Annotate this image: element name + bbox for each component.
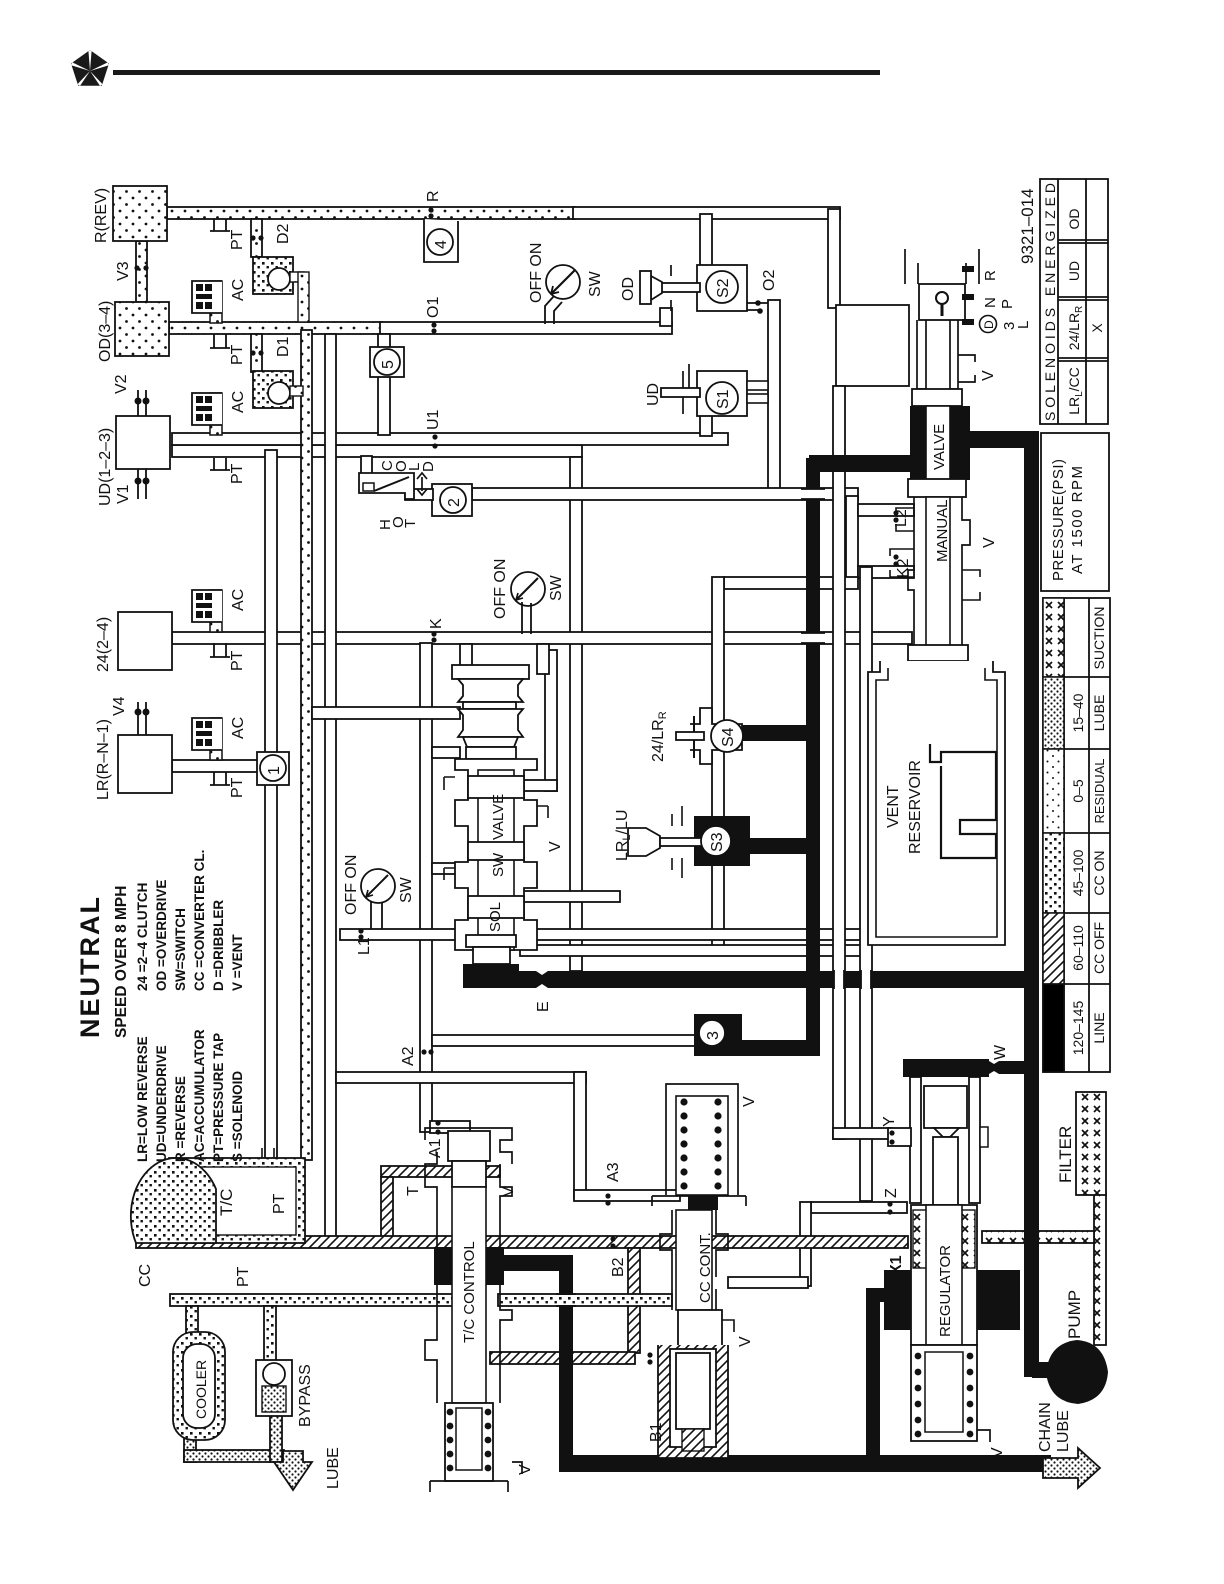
thick line: X1 vertical [866,1288,880,1472]
thick line: E line horizontal [464,971,1039,988]
svg-text:2: 2 [446,498,463,507]
thick line: main vertical pump to manual valve [1024,432,1039,1377]
wire A3 feed [336,1072,586,1083]
channels [134,207,1106,1462]
svg-text:V: V [500,1186,517,1197]
svg-text:R(REV): R(REV) [93,188,110,243]
wire H4 crossing thick [801,489,825,499]
svg-text:45–100: 45–100 [1070,849,1086,896]
pressure tap PT3 [210,458,230,470]
table: pressure legend [1043,598,1110,1072]
svg-text:CC CONT.: CC CONT. [697,1232,714,1303]
table: pressure psi at 1500 rpm [1041,433,1109,591]
wire speckle crossing B2 thick [556,1294,576,1306]
svg-text:LUBE: LUBE [325,1447,342,1489]
svg-text:OFF ON: OFF ON [343,855,360,915]
svg-text:V: V [989,1447,1006,1458]
wire SOL valve top feed right [460,644,472,674]
svg-text:CC ON: CC ON [1091,850,1107,895]
wire S2 drop from R line [700,214,712,270]
svg-text:LUBE: LUBE [1055,1410,1072,1452]
wire K crossing thick [801,633,825,643]
svg-text:5: 5 [380,360,397,369]
svg-text:VALVE: VALVE [931,424,948,470]
vent reservoir [868,661,1005,945]
wire SOL valve left stubs [432,747,460,758]
svg-text:SW: SW [548,574,565,601]
thick line: S4 branch [742,725,814,741]
svg-text:PT: PT [271,1193,288,1214]
svg-text:S3: S3 [709,832,726,852]
thick line: B2 from T/C control [498,1255,573,1271]
wire circled5 to U1 [378,373,390,435]
svg-text:V: V [980,370,997,381]
wire L2 stub [858,504,914,516]
svg-text:120–145: 120–145 [1070,1001,1086,1056]
svg-text:T/C: T/C [217,1189,236,1216]
accumulator B1 [658,1345,728,1458]
wire left long vertical lower [265,781,277,1160]
svg-text:RESERVOIR: RESERVOIR [907,760,924,854]
wire O1 to S2 stub [660,308,672,326]
svg-text:P: P [999,299,1016,309]
solenoid S3 assembly [628,806,750,878]
svg-text:O2: O2 [761,270,778,291]
svg-text:A1: A1 [427,1138,444,1158]
svg-text:Y: Y [881,1116,898,1127]
svg-text:BYPASS: BYPASS [297,1364,314,1427]
svg-text:REGULATOR: REGULATOR [937,1245,954,1337]
wire Vb crossing E line [861,970,871,989]
svg-text:SW=SWITCH: SW=SWITCH [173,908,188,991]
accumulator AC4 [192,718,222,760]
bypass valve [256,1360,292,1416]
svg-text:UD: UD [645,383,662,406]
svg-text:AC: AC [230,717,247,739]
PRNDL indicator [962,266,1032,333]
wire SOL valve top feed left [312,707,460,719]
svg-text:SOLENOIDS ENERGIZED: SOLENOIDS ENERGIZED [1042,183,1058,421]
svg-text:PT: PT [229,463,246,484]
pressure tap PT2 [210,334,230,348]
wire R line plain [573,207,840,219]
wire O1 line plain [380,322,672,334]
svg-text:VENT: VENT [885,785,902,828]
svg-text:UD=UNDERDRIVE: UD=UNDERDRIVE [154,1045,169,1162]
svg-text:V2: V2 [113,374,130,394]
wire right vertical to Z [860,567,872,1201]
cooler [173,1332,225,1440]
table: solenoids energized [1040,179,1108,424]
svg-text:OFF ON: OFF ON [528,243,545,303]
wire suction to regulator [982,1231,1094,1243]
svg-text:D: D [982,320,996,329]
wire circled2 to S1 line [472,488,858,500]
wire Va crossing E line [834,970,844,989]
solenoid S1 assembly [661,364,768,416]
svg-text:V =VENT: V =VENT [230,934,245,991]
svg-text:LR(R–N–1): LR(R–N–1) [95,719,112,800]
svg-text:Z: Z [883,1188,900,1198]
svg-text:0–5: 0–5 [1070,779,1086,803]
switch SW2 [511,572,545,634]
svg-text:PT: PT [229,777,246,798]
svg-text:VALVE: VALVE [490,794,507,840]
t/c control valve [425,1128,522,1492]
svg-text:SPEED OVER 8 MPH: SPEED OVER 8 MPH [113,886,130,1038]
wire hatch to B1 [490,1352,635,1364]
label COLD letters [379,460,437,472]
svg-text:D1: D1 [275,336,292,357]
svg-text:S2: S2 [715,278,732,298]
wire SW3 stem [371,901,382,933]
svg-text:CC =CONVERTER CL.: CC =CONVERTER CL. [192,850,207,991]
wire K line [172,632,912,644]
svg-text:OFF ON: OFF ON [492,559,509,619]
svg-text:PT: PT [229,344,246,365]
svg-text:PT: PT [229,650,246,671]
accumulator AC3 [192,590,222,632]
thick line: S3 branch [746,838,814,854]
wire speckle to cooler [186,1306,198,1334]
svg-text:PRESSURE(PSI): PRESSURE(PSI) [1050,459,1067,581]
svg-text:V: V [547,841,564,852]
svg-text:R =REVERSE: R =REVERSE [173,1076,188,1162]
svg-text:1: 1 [266,766,283,775]
svg-text:D: D [420,461,437,472]
swatch line [1043,984,1064,1072]
svg-text:X1: X1 [888,1255,905,1275]
svg-text:N: N [982,297,999,308]
valve circled 4 [424,219,458,262]
thick line: pump stub [1032,1362,1054,1378]
pump [1046,1340,1108,1404]
svg-text:SW: SW [587,270,604,297]
svg-text:B2: B2 [610,1257,627,1277]
wire SOL valve right loop [545,650,557,791]
thick line: left vertical to box3 [806,458,820,1056]
svg-text:AC: AC [230,279,247,301]
lube arrow [274,1451,312,1490]
svg-text:AC: AC [230,391,247,413]
thick line: W to main [985,1061,1026,1074]
header rule [113,70,880,75]
svg-text:15–40: 15–40 [1070,693,1086,732]
wire corner down to D-loop [828,209,840,308]
wire UD second channel D [172,445,582,457]
svg-text:T/C CONTROL: T/C CONTROL [461,1241,478,1343]
wire U1 corner up to S1 [700,414,712,436]
swatch suction [1043,598,1064,677]
thermal valve COLD/HOT [359,456,433,500]
label HOT letters [377,516,419,530]
svg-text:24 =2–4 CLUTCH: 24 =2–4 CLUTCH [135,883,150,991]
thick line: manual valve left run [809,455,919,472]
vent V2 stem [135,390,148,416]
svg-text:X: X [1089,323,1105,333]
svg-text:V: V [737,1336,754,1347]
wire hatch CC OFF main B2 [136,1236,908,1248]
swatch lube [1043,677,1064,749]
svg-text:D2: D2 [275,223,292,244]
valve circled 2 [432,484,472,516]
wire right vertical to Y [833,386,845,1139]
svg-text:V: V [517,1464,534,1475]
wire O2-S1 vertical [768,300,780,496]
svg-text:S4: S4 [720,727,737,747]
svg-text:V: V [741,1096,758,1107]
svg-text:PUMP: PUMP [1065,1290,1084,1339]
svg-text:PT: PT [235,1266,252,1287]
svg-text:9321–014: 9321–014 [1018,188,1037,264]
legend abbreviation list [135,850,245,1162]
svg-text:SW: SW [398,876,415,903]
svg-text:E: E [535,1001,552,1012]
wire box3 feed line [432,1035,698,1046]
thick line: box3 arm [739,1040,813,1056]
dribbler D1 [250,334,303,408]
wire speckle CC ON horizontal [170,1294,455,1306]
svg-text:CC: CC [137,1264,154,1287]
svg-text:LUBE: LUBE [1091,695,1107,732]
svg-text:R: R [982,270,999,281]
svg-text:MANUAL: MANUAL [934,499,951,562]
svg-text:T: T [402,519,419,528]
svg-text:CC OFF: CC OFF [1091,922,1107,974]
wire Y stub to regulator [833,1128,892,1139]
valve circled 1 [257,752,289,785]
valve circled 5 [370,347,404,377]
tables [1018,179,1110,1072]
wire hatch branch down [628,1248,640,1353]
svg-text:U1: U1 [425,409,442,430]
svg-text:R: R [425,190,442,202]
svg-text:AT 1500 RPM: AT 1500 RPM [1069,466,1086,574]
svg-text:RESIDUAL: RESIDUAL [1092,758,1107,823]
regulator assembly [884,1077,1020,1442]
label SOL SW VALVE [487,794,507,932]
wire SOL valve to VENT upper [520,945,870,956]
torque converter T/C [131,1148,305,1243]
vent V1 stem [135,469,148,499]
wire K2 stub [858,566,914,578]
wire V3 connector [136,241,147,302]
wire O1 drop vertical long [325,334,336,1238]
switch SW1 [545,265,580,324]
svg-text:L1: L1 [356,937,373,955]
header [71,50,880,86]
svg-text:V1: V1 [115,484,132,504]
svg-text:FILTER: FILTER [1056,1126,1075,1183]
clutch UD(1-2-3) [116,416,170,469]
svg-text:K2: K2 [895,558,912,578]
vent V4 stem [135,702,148,735]
svg-text:V: V [981,537,998,548]
wire circled5 top stub [378,334,390,353]
wire A1 corner [430,1121,470,1133]
cc cont valve [652,1084,746,1346]
svg-text:OD(3–4): OD(3–4) [97,301,114,362]
thick line: W bar [903,1059,989,1077]
wire stippled long vertical [301,330,312,1160]
svg-text:S1: S1 [715,389,732,409]
svg-text:OD: OD [620,277,637,301]
thickline [464,431,1054,1472]
svg-text:OD =OVERDRIVE: OD =OVERDRIVE [154,880,169,991]
svg-text:AC=ACCUMULATOR: AC=ACCUMULATOR [192,1029,207,1162]
svg-text:LR=LOW REVERSE: LR=LOW REVERSE [135,1036,150,1162]
manual valve assembly [890,249,980,661]
node D-port loop box [836,305,909,386]
svg-text:NEUTRAL: NEUTRAL [75,895,105,1038]
clutch 24(2-4) [118,612,172,670]
svg-text:PT=PRESSURE TAP: PT=PRESSURE TAP [211,1033,226,1162]
swatch residual [1043,749,1064,833]
svg-text:COOLER: COOLER [193,1360,209,1419]
svg-text:OD: OD [1066,209,1082,230]
svg-text:3: 3 [705,1031,722,1040]
wire lube dotted from cooler [184,1438,196,1462]
svg-text:60–110: 60–110 [1070,925,1086,971]
dribbler D2 [250,219,309,322]
wire LR box to circled1 [172,760,262,772]
svg-text:24(2–4): 24(2–4) [95,617,112,672]
wire L1 line to SOL valve [340,929,868,940]
svg-text:B1: B1 [648,1422,665,1442]
wire hatch T channel [381,1166,500,1177]
svg-text:S =SOLENOID: S =SOLENOID [230,1071,245,1162]
pressure tap PT4 [210,643,230,657]
svg-text:SUCTION: SUCTION [1091,607,1107,670]
wire U1 line [172,433,728,445]
svg-text:CHAIN: CHAIN [1037,1402,1054,1452]
swatch cc off [1043,913,1064,984]
wire U-continuation to vent [724,577,858,589]
solenoid S2 assembly [640,265,768,311]
svg-text:O1: O1 [425,297,442,318]
switch SW3 [361,869,395,903]
pressure tap PT5 LR [210,772,230,785]
wire O1 line stippled [169,322,382,334]
svg-text:UD(1–2–3): UD(1–2–3) [97,428,114,506]
wire L2 K2 riser [846,496,858,578]
accumulator AC1 [192,281,222,323]
svg-text:T: T [405,1186,422,1196]
svg-text:AC: AC [230,589,247,611]
clutch R(REV) [113,186,167,241]
svg-text:L: L [1015,321,1032,329]
thick line: X1 arm to regulator [866,1288,912,1302]
wire CC CONT right to Z riser [800,1202,811,1286]
svg-text:4: 4 [433,240,450,249]
svg-text:K: K [428,618,445,629]
svg-text:UD: UD [1066,261,1082,281]
filter [1076,1092,1106,1195]
clutch OD(3-4) [115,302,169,356]
wire D vertical long [570,457,582,971]
manual valve labels [931,424,951,562]
wire left long vertical upper [265,450,277,756]
pressure tap PT1 [210,219,230,231]
svg-text:V3: V3 [115,261,132,281]
svg-text:LRL/LU: LRL/LU [614,810,633,861]
clutch LR(R-N-1) [118,735,172,793]
wire K drop vertical A2 [420,643,432,1132]
svg-text:LINE: LINE [1091,1012,1107,1043]
thick line: bottom run [559,1455,1051,1472]
accumulator AC2 [192,393,222,435]
svg-text:A3: A3 [605,1162,622,1182]
thick line: B2 vertical down [559,1255,573,1472]
solenoid S4 assembly [676,708,743,764]
wire SOL valve to S3 [520,891,620,902]
chain lube arrow [1043,1448,1100,1488]
svg-text:V4: V4 [111,696,128,716]
wire speckle to bypass [264,1306,276,1364]
wire R line stippled [167,207,575,219]
svg-text:PT: PT [229,229,246,250]
svg-text:A2: A2 [400,1046,417,1066]
pentastar logo [71,50,109,86]
swatch cc on [1043,833,1064,913]
thick line: manual valve to main vertical [965,431,1039,448]
svg-text:W: W [992,1044,1009,1060]
svg-text:SW: SW [490,852,507,877]
wire suction filter down to pump [1094,1192,1106,1345]
valve circled 3 on black [694,1014,742,1056]
svg-text:D =DRIBBLER: D =DRIBBLER [211,900,226,991]
sol sw valve assembly [444,665,548,988]
svg-text:SOL: SOL [487,902,504,932]
wire Z line to regulator [811,1202,907,1213]
